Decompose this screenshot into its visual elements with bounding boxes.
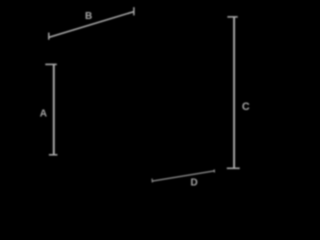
dimension line A (left vertical) (53, 64, 55, 155)
tick A top (45, 63, 57, 65)
tick C bottom (227, 167, 240, 169)
svg-text:B: B (85, 11, 92, 22)
dimension line D (bottom slanted) (152, 171, 214, 181)
tick A bottom (49, 154, 58, 156)
tick D right (213, 169, 215, 172)
svg-text:A: A (40, 108, 47, 119)
tick B left (48, 33, 50, 40)
svg-text:C: C (242, 101, 250, 113)
tick C top (227, 16, 237, 18)
svg-text:D: D (190, 177, 197, 188)
dimension line C (right vertical) (233, 17, 235, 168)
dimension line B (top slanted) (49, 12, 134, 38)
tick D left (151, 179, 153, 183)
tick B right (133, 7, 135, 15)
